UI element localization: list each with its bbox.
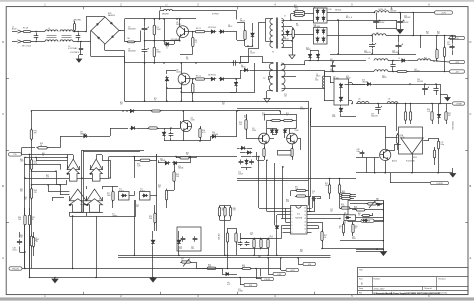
svg-text:C32: C32 — [300, 107, 303, 109]
svg-text:1N4148: 1N4148 — [178, 168, 183, 170]
svg-text:10K: 10K — [158, 187, 161, 189]
resistor R32 — [295, 196, 297, 198]
comparator input stub lines — [36, 160, 67, 162]
resistor R34 — [339, 183, 341, 185]
svg-text:C13: C13 — [284, 94, 287, 96]
svg-text:R8: R8 — [186, 57, 188, 59]
inductor L2 aux — [164, 10, 173, 12]
wire vertical x396 — [396, 104, 398, 132]
wire — [22, 268, 242, 270]
resistor R10b — [36, 147, 38, 149]
svg-text:L11: L11 — [388, 99, 391, 101]
svg-text:R34: R34 — [300, 250, 303, 252]
wire mid rail — [145, 40, 181, 42]
wire — [236, 111, 238, 137]
rectifier diodes D12 D13 negative rails — [310, 53, 312, 55]
wire left vertical drop — [31, 111, 33, 148]
TL431 U4 — [401, 138, 423, 154]
wire — [32, 31, 46, 33]
svg-text:FR102: FR102 — [346, 78, 351, 80]
svg-text:LM339: LM339 — [112, 215, 117, 217]
capacitor C48b — [362, 150, 364, 152]
wire — [359, 12, 375, 14]
svg-text:GRN2WH: GRN2WH — [162, 13, 169, 15]
wire T2 primary bottom — [267, 90, 273, 92]
ground AC filter — [78, 55, 80, 59]
svg-text:R36: R36 — [427, 109, 430, 111]
wire T1 secondary taps — [282, 20, 301, 22]
svg-text:D2 FR104: D2 FR104 — [208, 27, 216, 29]
svg-text:R50: R50 — [208, 264, 211, 266]
wire DC- drop to rail A — [124, 63, 126, 101]
capacitor C30 — [424, 86, 426, 88]
svg-text:2.2: 2.2 — [195, 42, 197, 44]
svg-text:15: 15 — [304, 211, 306, 213]
svg-text:C25: C25 — [402, 21, 405, 23]
capacitor C23 on +12V — [376, 19, 378, 21]
connector 3VSB flag — [361, 219, 374, 222]
svg-text:470/16V: 470/16V — [417, 81, 424, 83]
snubber R8 C9 secondary — [293, 28, 295, 30]
inductor L6 +5V — [372, 34, 386, 36]
svg-text:L9: L9 — [398, 58, 400, 60]
ground PS-ON area — [52, 279, 58, 283]
connector PG flag left — [8, 153, 21, 156]
svg-text:R35: R35 — [448, 113, 451, 115]
rectifier box standby — [334, 79, 349, 105]
connector +12V output — [435, 11, 453, 14]
svg-text:PS-ON: PS-ON — [12, 268, 19, 270]
svg-text:R23: R23 — [354, 207, 357, 209]
wire DC- from bridge — [104, 44, 106, 51]
diode D21 — [164, 162, 166, 164]
resistor network R2C — [230, 206, 232, 208]
svg-text:R72: R72 — [222, 102, 225, 104]
svg-text:R9: R9 — [296, 24, 298, 26]
wire driver to T2 — [257, 160, 264, 162]
transistor Q5 — [180, 120, 191, 131]
svg-text:D11: D11 — [314, 24, 317, 26]
svg-text:103: 103 — [284, 96, 287, 98]
IC1 pins right — [307, 208, 312, 210]
PWM IC1 KA7500B — [291, 206, 308, 235]
svg-text:4.7K: 4.7K — [286, 201, 289, 203]
svg-text:12K: 12K — [258, 257, 261, 259]
diode D38 — [340, 96, 342, 98]
svg-text:C7: C7 — [284, 16, 286, 18]
svg-text:4A/600V: 4A/600V — [108, 14, 116, 17]
op-amp U2C — [69, 189, 86, 201]
svg-text:L2: L2 — [166, 5, 168, 7]
wire +5V rail — [327, 35, 372, 37]
svg-text:C10: C10 — [166, 46, 169, 48]
resistor R49 inrush — [74, 22, 76, 24]
wire block rail — [356, 172, 445, 174]
svg-text:330/200V: 330/200V — [128, 29, 136, 31]
wire long rail E — [118, 257, 331, 259]
transistor Q1 — [177, 26, 189, 38]
svg-text:3.3V: 3.3V — [277, 274, 282, 276]
wire — [356, 157, 379, 159]
svg-text:C23: C23 — [390, 9, 393, 11]
resistor R53 -5V — [396, 71, 398, 73]
capacitor C5 — [144, 26, 146, 28]
wire -5V rail — [300, 88, 324, 90]
svg-text:330/25: 330/25 — [382, 77, 387, 79]
box SG marker — [278, 151, 292, 156]
resistor R15 — [31, 158, 33, 160]
wire — [324, 88, 326, 101]
svg-text:+3.3VS: +3.3VS — [436, 183, 443, 185]
svg-text:D17: D17 — [330, 59, 333, 61]
wire +12V rail — [327, 12, 359, 14]
svg-text:D1 FR107: D1 FR107 — [212, 14, 219, 16]
svg-text:B: B — [2, 184, 4, 188]
svg-text:C42: C42 — [414, 69, 417, 71]
svg-text:R66: R66 — [20, 235, 23, 237]
svg-text:10: 10 — [304, 229, 306, 231]
resistor R16 — [31, 187, 33, 189]
svg-text:1K: 1K — [339, 228, 341, 230]
wire standby rail — [380, 84, 440, 86]
capacitor C31 — [436, 87, 438, 89]
wire resistor network drop — [227, 255, 229, 268]
common mode choke L1 — [45, 30, 58, 32]
svg-text:2200/10V: 2200/10V — [371, 115, 379, 117]
X-capacitor C2 — [78, 33, 80, 36]
wire secondary ground bus — [338, 20, 340, 54]
op-amp U2A — [67, 159, 79, 170]
wire Q2 emitter — [181, 84, 183, 101]
svg-text:Date: Date — [359, 287, 363, 290]
wire — [216, 268, 222, 270]
svg-text:NTC1 5D-9: NTC1 5D-9 — [22, 46, 31, 48]
svg-text:470: 470 — [186, 59, 189, 61]
connector +3.3V flag — [273, 272, 286, 275]
diode D27 — [272, 128, 274, 130]
comparator pin wires U2D — [86, 197, 88, 201]
svg-text:C4242: C4242 — [176, 24, 181, 26]
svg-text:1000/16V: 1000/16V — [404, 17, 410, 19]
transformer T1 — [265, 23, 267, 41]
svg-text:-12V: -12V — [455, 62, 460, 64]
svg-text:R60: R60 — [42, 153, 45, 155]
wire — [349, 82, 353, 84]
diode D25 — [152, 239, 154, 241]
wire — [240, 238, 268, 240]
capacitor C6 — [144, 48, 146, 50]
wire — [236, 32, 238, 40]
svg-text:R13: R13 — [426, 32, 429, 34]
resistor R54 — [340, 194, 342, 196]
svg-text:C26: C26 — [392, 51, 395, 53]
svg-text:EE-19: EE-19 — [316, 76, 320, 78]
svg-text:330: 330 — [448, 115, 451, 117]
svg-text:1K: 1K — [222, 210, 224, 212]
svg-text:104: 104 — [250, 234, 253, 236]
wire — [324, 70, 326, 76]
svg-text:R33: R33 — [343, 222, 346, 224]
wire long rail D — [118, 255, 331, 257]
svg-text:L4 R50_LH: L4 R50_LH — [378, 9, 387, 11]
svg-text:+12V: +12V — [290, 270, 295, 272]
svg-text:1/50: 1/50 — [191, 248, 194, 250]
inductor L10 — [357, 102, 369, 104]
resistor R57 — [343, 223, 345, 225]
svg-text:4.7K: 4.7K — [354, 208, 357, 210]
svg-text:D: D — [2, 40, 4, 44]
wire pins left lower — [282, 225, 286, 227]
svg-text:150K: 150K — [20, 161, 24, 163]
svg-text:SBL2040: SBL2040 — [335, 10, 341, 12]
svg-text:470/25V: 470/25V — [414, 71, 420, 73]
resistor R19 — [282, 120, 284, 122]
ground trimmer — [150, 278, 156, 282]
wire — [241, 156, 252, 158]
svg-text:EE-25: EE-25 — [228, 26, 232, 28]
inductor L8 -5V — [374, 70, 388, 72]
resistor R52 under Q4 — [292, 147, 294, 149]
svg-text:A: A — [470, 256, 472, 260]
trimmer VR2 — [366, 203, 368, 205]
snubber resistors R9 R10 — [293, 11, 295, 13]
svg-text:1000/16V: 1000/16V — [378, 22, 384, 24]
capacitor C16 — [312, 198, 314, 200]
wire vertical pair to PWM — [308, 101, 310, 205]
svg-text:1000/16V: 1000/16V — [390, 11, 396, 13]
svg-text:470E: 470E — [332, 116, 336, 118]
svg-text:FL2/100KHz: FL2/100KHz — [406, 161, 415, 163]
title block outline — [358, 268, 469, 295]
wire — [29, 225, 31, 278]
svg-text:C4242: C4242 — [176, 72, 181, 74]
svg-text:R63: R63 — [24, 197, 27, 199]
svg-text:COGTFH W: COGTFH W — [70, 52, 80, 54]
svg-text:16: 16 — [304, 208, 306, 210]
common mode choke L2 — [60, 30, 73, 32]
wire +5VSB rail — [356, 103, 452, 105]
wire standby feedback — [310, 108, 312, 126]
svg-text:D8 1N4148: D8 1N4148 — [171, 39, 180, 41]
resistor R31 — [295, 190, 297, 192]
svg-text:R31: R31 — [295, 187, 298, 189]
svg-text:D4 FR104: D4 FR104 — [208, 75, 216, 77]
resistor R35h — [340, 196, 342, 198]
resistor R39 — [446, 110, 448, 112]
svg-text:1/50: 1/50 — [179, 248, 182, 250]
svg-text:C16: C16 — [312, 191, 315, 193]
wire op-amp outputs to right — [86, 212, 88, 216]
opto coupler IC6 — [344, 215, 356, 221]
wire T2 primary top — [262, 62, 273, 64]
resistor R55 — [340, 198, 342, 200]
svg-text:C945: C945 — [295, 130, 299, 132]
svg-text:D15: D15 — [362, 80, 365, 82]
capacitor C26 — [398, 43, 400, 45]
diode D4 — [210, 78, 212, 80]
svg-text:File: File — [359, 293, 362, 295]
wire long rail B — [237, 108, 309, 110]
svg-text:C41: C41 — [382, 76, 385, 78]
svg-text:D13: D13 — [160, 159, 163, 161]
svg-text:C30: C30 — [417, 79, 420, 81]
svg-text:1N4148: 1N4148 — [160, 160, 165, 162]
wire — [30, 277, 269, 279]
svg-text:D: D — [469, 40, 471, 44]
wire Q1 collector — [179, 19, 181, 26]
svg-text:11: 11 — [305, 225, 307, 227]
zener D34 — [236, 81, 238, 83]
fuse F1 — [22, 31, 24, 33]
svg-text:0.22: 0.22 — [294, 7, 297, 9]
snubber diode D7 — [252, 32, 254, 34]
svg-text:4.7K: 4.7K — [46, 177, 49, 179]
svg-text:R23: R23 — [186, 153, 189, 155]
wire — [356, 249, 383, 251]
diode D30 — [240, 148, 242, 150]
svg-text:2200/10V: 2200/10V — [392, 52, 398, 54]
svg-text:A1015: A1015 — [392, 160, 397, 163]
svg-text:Drawn By:: Drawn By: — [439, 292, 448, 295]
svg-text:C12: C12 — [136, 205, 139, 207]
svg-text:CON12: CON12 — [238, 291, 243, 293]
resistor R45 — [24, 214, 26, 216]
svg-text:1n/1KV: 1n/1KV — [250, 53, 255, 55]
svg-text:SBL3040: SBL3040 — [314, 26, 321, 28]
opto IC5 diode — [376, 204, 378, 206]
svg-text:330: 330 — [437, 33, 440, 35]
svg-text:5013: 5013 — [315, 80, 319, 82]
X-capacitor C1 — [36, 33, 38, 36]
wire IC outputs — [312, 214, 346, 216]
diode D28 — [276, 128, 278, 130]
resistor R36 — [405, 110, 407, 112]
resistor R6 — [192, 82, 194, 84]
wire — [22, 154, 68, 156]
wire aux top rail — [159, 11, 161, 19]
svg-text:1n: 1n — [166, 48, 168, 50]
capacitor C11 — [170, 132, 172, 134]
wire — [47, 147, 60, 149]
resistor R11 load — [436, 48, 438, 50]
diode D22 — [172, 162, 174, 164]
resistor R29 — [154, 212, 156, 214]
wire — [180, 121, 182, 126]
svg-text:10K: 10K — [24, 199, 27, 201]
ground standby — [445, 98, 450, 101]
svg-text:104: 104 — [330, 211, 333, 213]
wire pin jogs left — [285, 208, 287, 222]
wire standby block box — [399, 127, 423, 154]
svg-text:PC817: PC817 — [140, 190, 145, 192]
svg-text:D17: D17 — [306, 48, 309, 50]
diode D36 inline — [243, 70, 245, 72]
connector PSON flag — [261, 277, 273, 280]
connector +12V flag — [286, 268, 299, 271]
diode D31 — [246, 152, 248, 154]
resistor R48 on rail — [150, 110, 152, 112]
comparator pin wires U2B — [90, 165, 92, 170]
resistor R42v — [434, 149, 436, 151]
capacitor C15 — [251, 159, 253, 161]
resistor R46 — [29, 214, 31, 216]
svg-text:2.7K: 2.7K — [233, 210, 236, 212]
junctions op-amp area — [66, 157, 67, 158]
svg-text:R64: R64 — [20, 159, 23, 161]
wire Q2 emitter to T2 — [254, 63, 256, 92]
svg-text:IC3: IC3 — [119, 189, 122, 191]
diode D37 — [340, 83, 342, 85]
capacitor C8 — [232, 62, 234, 64]
svg-text:T3: T3 — [316, 74, 318, 76]
diode D3 — [219, 31, 221, 33]
wire left vertical rails — [24, 157, 26, 268]
wire 3.3V sense — [390, 182, 430, 184]
svg-text:10: 10 — [99, 198, 101, 200]
connector PG flag2 — [244, 283, 257, 286]
LED D16 — [438, 113, 440, 115]
wire — [298, 264, 303, 266]
svg-text:TH1: TH1 — [127, 38, 130, 40]
svg-text:C25: C25 — [404, 16, 407, 18]
capacitor C27 — [452, 44, 454, 46]
svg-text:PC817: PC817 — [119, 190, 124, 192]
resistor R1 — [154, 24, 156, 26]
wire — [272, 128, 277, 130]
svg-text:11: 11 — [88, 198, 90, 200]
resistor R48 inline — [241, 268, 243, 270]
ground standby control — [450, 174, 456, 178]
capacitor C48 — [19, 239, 21, 241]
wire op-amp lower connections — [67, 154, 69, 169]
svg-text:Number: Number — [374, 277, 381, 280]
diode D15 — [366, 84, 368, 86]
capacitor C21 in block — [194, 236, 196, 238]
wire opamp output long — [118, 216, 136, 218]
resistor R3 base — [194, 31, 196, 33]
opto coupler IC3 — [119, 192, 130, 201]
connector PS-ON — [9, 267, 22, 270]
ground +12V filter — [397, 30, 403, 34]
comparator pin wires U2A — [67, 165, 69, 170]
svg-text:L10: L10 — [358, 99, 361, 101]
wire rail G — [237, 180, 309, 182]
wire rail — [109, 156, 237, 158]
wire op-amp bus pair — [81, 150, 83, 212]
connector -12V output — [450, 60, 465, 63]
wire comparator input lines — [25, 157, 67, 159]
svg-text:PG: PG — [14, 154, 17, 156]
zener D9 — [166, 81, 168, 83]
U6 block innards — [361, 215, 363, 217]
op-amp U2B — [90, 159, 102, 170]
transistor Q4 — [287, 133, 298, 144]
svg-text:C18: C18 — [250, 233, 253, 235]
resistor R38 — [432, 110, 434, 112]
svg-text:C: C — [2, 112, 4, 116]
svg-text:1K: 1K — [154, 100, 156, 102]
transistor Q7 — [380, 149, 391, 160]
svg-text:2200/6.3V: 2200/6.3V — [364, 52, 371, 54]
svg-text:R70: R70 — [120, 102, 123, 104]
connector -5V output — [450, 70, 465, 73]
wire long rail A — [125, 101, 309, 103]
svg-text:C14: C14 — [238, 172, 241, 174]
svg-text:FR302: FR302 — [306, 49, 311, 51]
svg-text:R61: R61 — [358, 213, 361, 215]
svg-text:12: 12 — [304, 222, 306, 224]
bottom grey band — [0, 297, 474, 300]
